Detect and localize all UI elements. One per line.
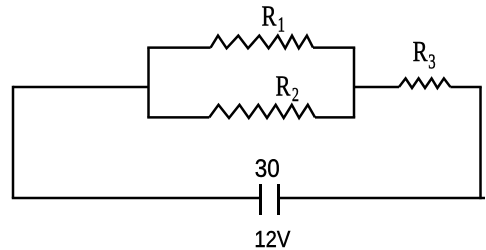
wire: bottom left to battery (12, 197, 261, 200)
wire: left vertical rail (12, 86, 15, 198)
value label 12V below battery (254, 226, 290, 250)
resistor R1 zigzag (211, 36, 313, 49)
label R3 subscript 3 (428, 50, 435, 73)
wire: box top edge right of R1 (313, 46, 355, 49)
svg-text:1: 1 (278, 13, 285, 36)
svg-text:12V: 12V (254, 226, 290, 250)
wire: bottom right from battery to right rail (279, 197, 486, 200)
svg-text:R: R (276, 71, 291, 102)
wire: box right edge to R3 (354, 86, 399, 89)
label R2 (276, 71, 291, 102)
wire: right vertical rail (479, 87, 482, 199)
wire: R3 to right rail corner (450, 86, 481, 89)
wire: box bottom edge left of R2 (147, 116, 209, 119)
node: parallel box right edge (353, 48, 356, 118)
battery V1 right plate (277, 184, 280, 215)
resistor R3 zigzag (399, 78, 450, 88)
battery V1 left plate (259, 184, 262, 215)
svg-text:30: 30 (255, 155, 280, 184)
svg-text:3: 3 (428, 50, 435, 73)
node: parallel box left edge (147, 48, 150, 118)
svg-text:R: R (262, 1, 277, 32)
wire: box bottom edge right of R2 (315, 116, 355, 119)
wire: left horizontal from left rail to parallel box (13, 86, 149, 89)
label R1 subscript 1 (278, 13, 285, 36)
resistor R2 zigzag (209, 105, 315, 118)
label R2 subscript 2 (292, 83, 299, 106)
svg-text:R: R (413, 37, 428, 68)
label R3 (413, 37, 428, 68)
label R1 (262, 1, 277, 32)
svg-text:2: 2 (292, 83, 299, 106)
wire: box top edge left of R1 (147, 46, 210, 49)
value label 30 above battery (255, 155, 280, 184)
